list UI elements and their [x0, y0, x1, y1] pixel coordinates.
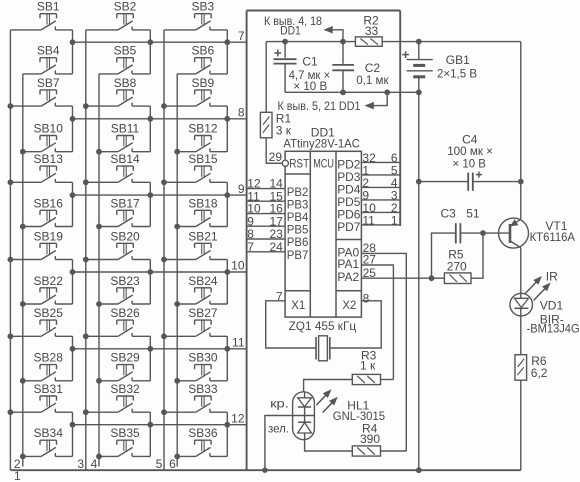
wire ground rail — [285, 91, 419, 93]
junction — [283, 39, 288, 44]
junction — [83, 180, 88, 185]
svg-text:6,2: 6,2 — [531, 366, 548, 380]
svg-text:SB4: SB4 — [37, 44, 60, 58]
svg-text:3: 3 — [77, 457, 84, 471]
wire VCC rail — [266, 41, 355, 43]
push button SB1 — [10, 0, 72, 30]
wire VT1 collector to VD1 — [520, 248, 522, 294]
junction — [70, 346, 75, 351]
push button SB3 — [164, 0, 227, 30]
wire — [149, 182, 151, 226]
svg-text:SB6: SB6 — [192, 44, 215, 58]
svg-text:SB20: SB20 — [110, 229, 140, 243]
junction — [385, 90, 390, 95]
svg-text:К выв. 5, 21 DD1: К выв. 5, 21 DD1 — [278, 99, 361, 113]
capacitor C2 — [342, 42, 344, 64]
battery GB1 — [418, 42, 420, 60]
svg-text:12: 12 — [231, 411, 245, 425]
annotation arrow to VCC — [325, 27, 333, 33]
push button SB10 — [23, 122, 73, 152]
push button SB9 — [164, 76, 227, 106]
svg-text:MCU: MCU — [313, 157, 334, 171]
junction — [70, 193, 75, 198]
wire row net 8 — [73, 118, 247, 120]
LED HL1 internal link — [304, 392, 306, 398]
svg-text:SB14: SB14 — [110, 152, 140, 166]
svg-text:SB1: SB1 — [37, 0, 60, 14]
push button SB26 — [86, 306, 151, 336]
wire R4 right — [381, 450, 407, 452]
junction — [148, 270, 153, 275]
junction — [70, 116, 75, 121]
svg-text:SB28: SB28 — [34, 351, 64, 365]
pin 29 RST stub — [266, 162, 282, 164]
wire pin stub PD2 — [361, 161, 400, 163]
wire battery minus rail — [418, 92, 420, 470]
push button SB21 — [164, 229, 227, 259]
junction — [70, 40, 75, 45]
keyboard column net 2 (wire) — [22, 74, 24, 467]
svg-text:SB5: SB5 — [114, 44, 137, 58]
keyboard column net 5 (wire) — [163, 30, 165, 470]
push button SB31 — [10, 382, 72, 412]
svg-text:SB11: SB11 — [111, 122, 140, 136]
IC DD1 internal dividers — [309, 151, 311, 317]
push button SB33 — [164, 382, 227, 412]
wire — [226, 412, 228, 456]
push button SB35 — [99, 426, 150, 456]
wire — [72, 260, 74, 305]
junction — [175, 378, 180, 383]
junction — [70, 422, 75, 427]
wire pin stub PB4 — [247, 213, 285, 215]
junction — [20, 149, 25, 154]
svg-text:PB7: PB7 — [287, 248, 309, 262]
junction — [175, 454, 180, 459]
push button SB6 — [177, 44, 227, 74]
svg-text:SB19: SB19 — [34, 229, 64, 243]
push button SB16 — [23, 196, 73, 226]
svg-text:КТ6116А: КТ6116А — [530, 230, 575, 244]
junction — [8, 257, 13, 262]
capacitor C4 — [419, 181, 468, 183]
junction — [518, 179, 523, 184]
junction — [416, 179, 421, 184]
wire — [149, 106, 151, 152]
push button SB12 — [177, 122, 227, 152]
push button SB5 — [99, 44, 150, 74]
push button SB18 — [177, 196, 227, 226]
junction — [83, 104, 88, 109]
wire pin stub PD6 — [361, 211, 400, 213]
junction — [162, 180, 167, 185]
svg-text:SB9: SB9 — [192, 76, 215, 90]
wire right supply rail — [520, 42, 522, 220]
wire row net 12 — [73, 424, 247, 426]
svg-text:× 10 В: × 10 В — [453, 156, 486, 170]
push button SB36 — [177, 426, 227, 456]
push button SB4 — [23, 44, 73, 74]
svg-text:SB33: SB33 — [188, 382, 218, 396]
junction — [175, 224, 180, 229]
junction — [341, 39, 346, 44]
HL1 emission arrows — [317, 395, 326, 405]
wire R3 right — [381, 379, 394, 381]
wire row net 10 — [73, 271, 247, 273]
push button SB22 — [23, 274, 73, 304]
svg-text:11: 11 — [362, 213, 375, 227]
junction — [97, 149, 102, 154]
quartz resonator ZQ1 — [315, 337, 317, 360]
inversion bubble RST — [282, 160, 288, 166]
svg-text:SB27: SB27 — [188, 306, 218, 320]
wire pin stub PB6 — [247, 238, 285, 240]
junction — [148, 40, 153, 45]
svg-text:SB36: SB36 — [188, 426, 218, 440]
svg-text:SB21: SB21 — [188, 229, 218, 243]
junction — [416, 468, 421, 473]
svg-text:VD1: VD1 — [540, 298, 564, 312]
junction — [225, 193, 230, 198]
junction — [162, 334, 167, 339]
svg-text:33: 33 — [365, 24, 379, 38]
svg-text:SB35: SB35 — [110, 426, 140, 440]
resistor R6 — [515, 355, 527, 381]
keyboard column net 6 (wire) — [176, 74, 178, 467]
svg-text:0,1 мк: 0,1 мк — [356, 73, 389, 87]
junction — [97, 302, 102, 307]
push button SB27 — [164, 306, 227, 336]
junction — [83, 410, 88, 415]
resistor R4 — [352, 446, 380, 456]
capacitor C1 — [284, 42, 286, 58]
wire R1 to RST — [266, 138, 282, 164]
wire row net 9 — [73, 194, 247, 196]
junction — [162, 104, 167, 109]
svg-text:7: 7 — [247, 240, 254, 254]
push button SB20 — [86, 229, 151, 259]
push button SB34 — [23, 426, 73, 456]
svg-text:PD7: PD7 — [337, 220, 361, 234]
LED VD1 — [510, 293, 533, 316]
svg-text:зел.: зел. — [268, 422, 289, 436]
wire — [72, 336, 74, 381]
wire PA0 to R4 — [361, 253, 406, 451]
svg-text:SB24: SB24 — [188, 274, 218, 288]
svg-text:270: 270 — [447, 259, 467, 273]
wire — [149, 412, 151, 456]
svg-text:IR: IR — [546, 269, 558, 283]
wire — [72, 412, 74, 456]
push button SB8 — [86, 76, 151, 106]
resistor R2 — [355, 37, 382, 46]
svg-text:SB30: SB30 — [188, 351, 218, 365]
wire pin stub PB2 — [247, 188, 285, 190]
wire X1 to ZQ1 — [266, 301, 316, 348]
svg-text:10: 10 — [231, 259, 245, 273]
wire pin stub PD4 — [361, 186, 400, 188]
junction — [70, 270, 75, 275]
push button SB2 — [86, 0, 151, 30]
svg-text:5: 5 — [156, 457, 163, 471]
C4 polarity plus — [476, 174, 482, 176]
unit outline box right — [399, 11, 401, 227]
svg-text:SB26: SB26 — [110, 306, 140, 320]
push button SB29 — [99, 351, 150, 381]
svg-text:SB3: SB3 — [192, 0, 215, 14]
resistor R5 — [432, 277, 445, 279]
svg-text:SB22: SB22 — [34, 274, 64, 288]
wire R5 right to base node — [471, 233, 483, 278]
svg-text:-BM13J4G: -BM13J4G — [527, 321, 580, 335]
wire pin stub PB5 — [247, 225, 285, 227]
svg-text:24: 24 — [269, 240, 283, 254]
svg-text:2×1,5 В: 2×1,5 В — [437, 66, 477, 80]
junction — [148, 422, 153, 427]
wire — [226, 182, 228, 226]
wire — [149, 260, 151, 305]
junction — [175, 302, 180, 307]
svg-text:SB15: SB15 — [188, 152, 218, 166]
svg-text:PA1: PA1 — [337, 257, 359, 271]
push button SB7 — [10, 76, 72, 106]
GB1 polarity plus — [402, 54, 409, 56]
keyboard column net 3 (wire) — [85, 30, 87, 470]
push button SB32 — [86, 382, 151, 412]
wire — [149, 336, 151, 381]
push button SB30 — [177, 351, 227, 381]
svg-text:X2: X2 — [342, 298, 356, 312]
svg-text:29: 29 — [269, 150, 283, 164]
svg-text:390: 390 — [360, 432, 380, 446]
wire — [226, 30, 228, 74]
wire — [149, 30, 151, 74]
svg-text:SB8: SB8 — [114, 76, 137, 90]
resistor R3 — [352, 374, 380, 384]
wire PA2 to R5 node — [361, 277, 431, 279]
junction — [20, 454, 25, 459]
wire HL1 bottom to R4 — [305, 440, 353, 451]
LED HL1 body — [293, 392, 315, 440]
svg-text:SB31: SB31 — [34, 382, 64, 396]
unit outline box left — [246, 11, 248, 471]
junction — [225, 116, 230, 121]
junction — [8, 334, 13, 339]
wire pin stub PB3 — [247, 200, 285, 202]
push button SB11 — [99, 122, 150, 152]
junction — [225, 270, 230, 275]
svg-text:51: 51 — [466, 207, 480, 221]
svg-text:7: 7 — [238, 29, 245, 43]
wire PA2 node — [429, 276, 434, 281]
svg-text:1 к: 1 к — [360, 359, 376, 373]
junction — [97, 224, 102, 229]
junction — [8, 410, 13, 415]
wire — [226, 336, 228, 381]
LED HL1 green diode — [298, 421, 311, 423]
svg-text:SB10: SB10 — [34, 122, 64, 136]
wire PA1 to R3 — [361, 265, 393, 380]
wire — [72, 182, 74, 226]
svg-text:11: 11 — [232, 336, 245, 350]
junction — [416, 90, 421, 95]
svg-text:8: 8 — [363, 292, 370, 306]
push button SB15 — [164, 152, 227, 182]
push button SB17 — [99, 196, 150, 226]
svg-text:6: 6 — [169, 457, 176, 471]
junction — [162, 257, 167, 262]
svg-text:SB34: SB34 — [34, 426, 64, 440]
resistor R1 — [260, 112, 272, 138]
push button SB14 — [86, 152, 151, 182]
keyboard column net 1 (wire) — [9, 30, 11, 470]
junction — [97, 378, 102, 383]
junction — [8, 104, 13, 109]
wire — [72, 30, 74, 74]
svg-text:GNL-3015: GNL-3015 — [333, 409, 386, 423]
wire VD1 to R6 — [520, 316, 522, 355]
svg-text:SB7: SB7 — [37, 76, 60, 90]
junction — [416, 39, 421, 44]
junction — [162, 410, 167, 415]
junction — [148, 116, 153, 121]
wire VCC to R1 — [265, 42, 267, 113]
svg-text:кр.: кр. — [270, 397, 289, 411]
capacitor C3 — [432, 233, 456, 278]
push button SB28 — [23, 351, 73, 381]
svg-text:C3: C3 — [441, 207, 457, 221]
junction — [20, 302, 25, 307]
wire ZQ1 to X2 — [330, 301, 381, 348]
svg-text:X1: X1 — [291, 298, 305, 312]
unit outline box top — [247, 10, 401, 12]
svg-text:SB32: SB32 — [110, 382, 140, 396]
junction — [481, 231, 486, 236]
svg-text:SB23: SB23 — [110, 274, 140, 288]
svg-text:SB13: SB13 — [34, 152, 64, 166]
wire pin stub PD7 — [361, 224, 400, 226]
junction — [83, 334, 88, 339]
wire R3 left to HL1 — [304, 380, 353, 392]
wire — [72, 106, 74, 152]
wire — [226, 260, 228, 305]
IC DD1 body — [285, 151, 361, 317]
junction — [97, 454, 102, 459]
svg-text:GB1: GB1 — [446, 53, 470, 67]
wire row net 7 — [73, 41, 247, 43]
junction — [8, 180, 13, 185]
svg-text:1: 1 — [391, 213, 398, 227]
svg-text:SB2: SB2 — [114, 0, 137, 14]
svg-text:ATtiny28V-1AC: ATtiny28V-1AC — [283, 136, 360, 150]
junction — [83, 257, 88, 262]
svg-text:PA2: PA2 — [337, 270, 359, 284]
junction — [20, 224, 25, 229]
svg-text:× 10 В: × 10 В — [293, 79, 327, 93]
junction — [225, 40, 230, 45]
push button SB23 — [99, 274, 150, 304]
wire pin stub PD3 — [361, 174, 400, 176]
junction — [263, 468, 267, 472]
junction — [175, 149, 180, 154]
wire — [226, 106, 228, 152]
svg-text:SB17: SB17 — [110, 196, 140, 210]
ground bus (bottom wire) — [10, 469, 520, 471]
junction — [148, 346, 153, 351]
push button SB25 — [10, 306, 72, 336]
svg-text:4: 4 — [91, 457, 98, 471]
svg-text:ZQ1 455 кГц: ZQ1 455 кГц — [289, 319, 357, 333]
junction — [148, 193, 153, 198]
svg-text:SB16: SB16 — [34, 196, 64, 210]
C1 polarity plus — [274, 52, 281, 54]
wire pin stub PB7 — [247, 251, 285, 253]
push button SB13 — [10, 152, 72, 182]
svg-text:RST: RST — [289, 157, 310, 171]
svg-text:SB18: SB18 — [188, 196, 218, 210]
keyboard column net 4 (wire) — [98, 74, 100, 467]
wire R6 to ground bus — [520, 380, 522, 470]
junction — [341, 90, 346, 95]
svg-text:C1: C1 — [302, 54, 318, 68]
LED HL1 red diode — [298, 398, 312, 407]
transistor VT1 — [483, 218, 529, 248]
junction — [225, 422, 230, 427]
push button SB24 — [177, 274, 227, 304]
wire row net 11 — [73, 348, 247, 350]
svg-text:8: 8 — [238, 106, 245, 120]
wire HL1 common cathode to ground — [265, 416, 293, 471]
svg-text:SB12: SB12 — [188, 122, 218, 136]
svg-text:3 к: 3 к — [276, 123, 292, 137]
push button SB19 — [10, 229, 72, 259]
junction — [20, 378, 25, 383]
junction — [225, 346, 230, 351]
svg-text:DD1: DD1 — [280, 23, 301, 37]
svg-text:SB29: SB29 — [110, 351, 140, 365]
VD1 emission arrows IR — [525, 282, 536, 294]
svg-text:SB25: SB25 — [34, 306, 64, 320]
svg-text:9: 9 — [238, 182, 245, 196]
annotation arrow to ground rail — [366, 103, 374, 109]
wire pin stub PD5 — [361, 199, 400, 201]
